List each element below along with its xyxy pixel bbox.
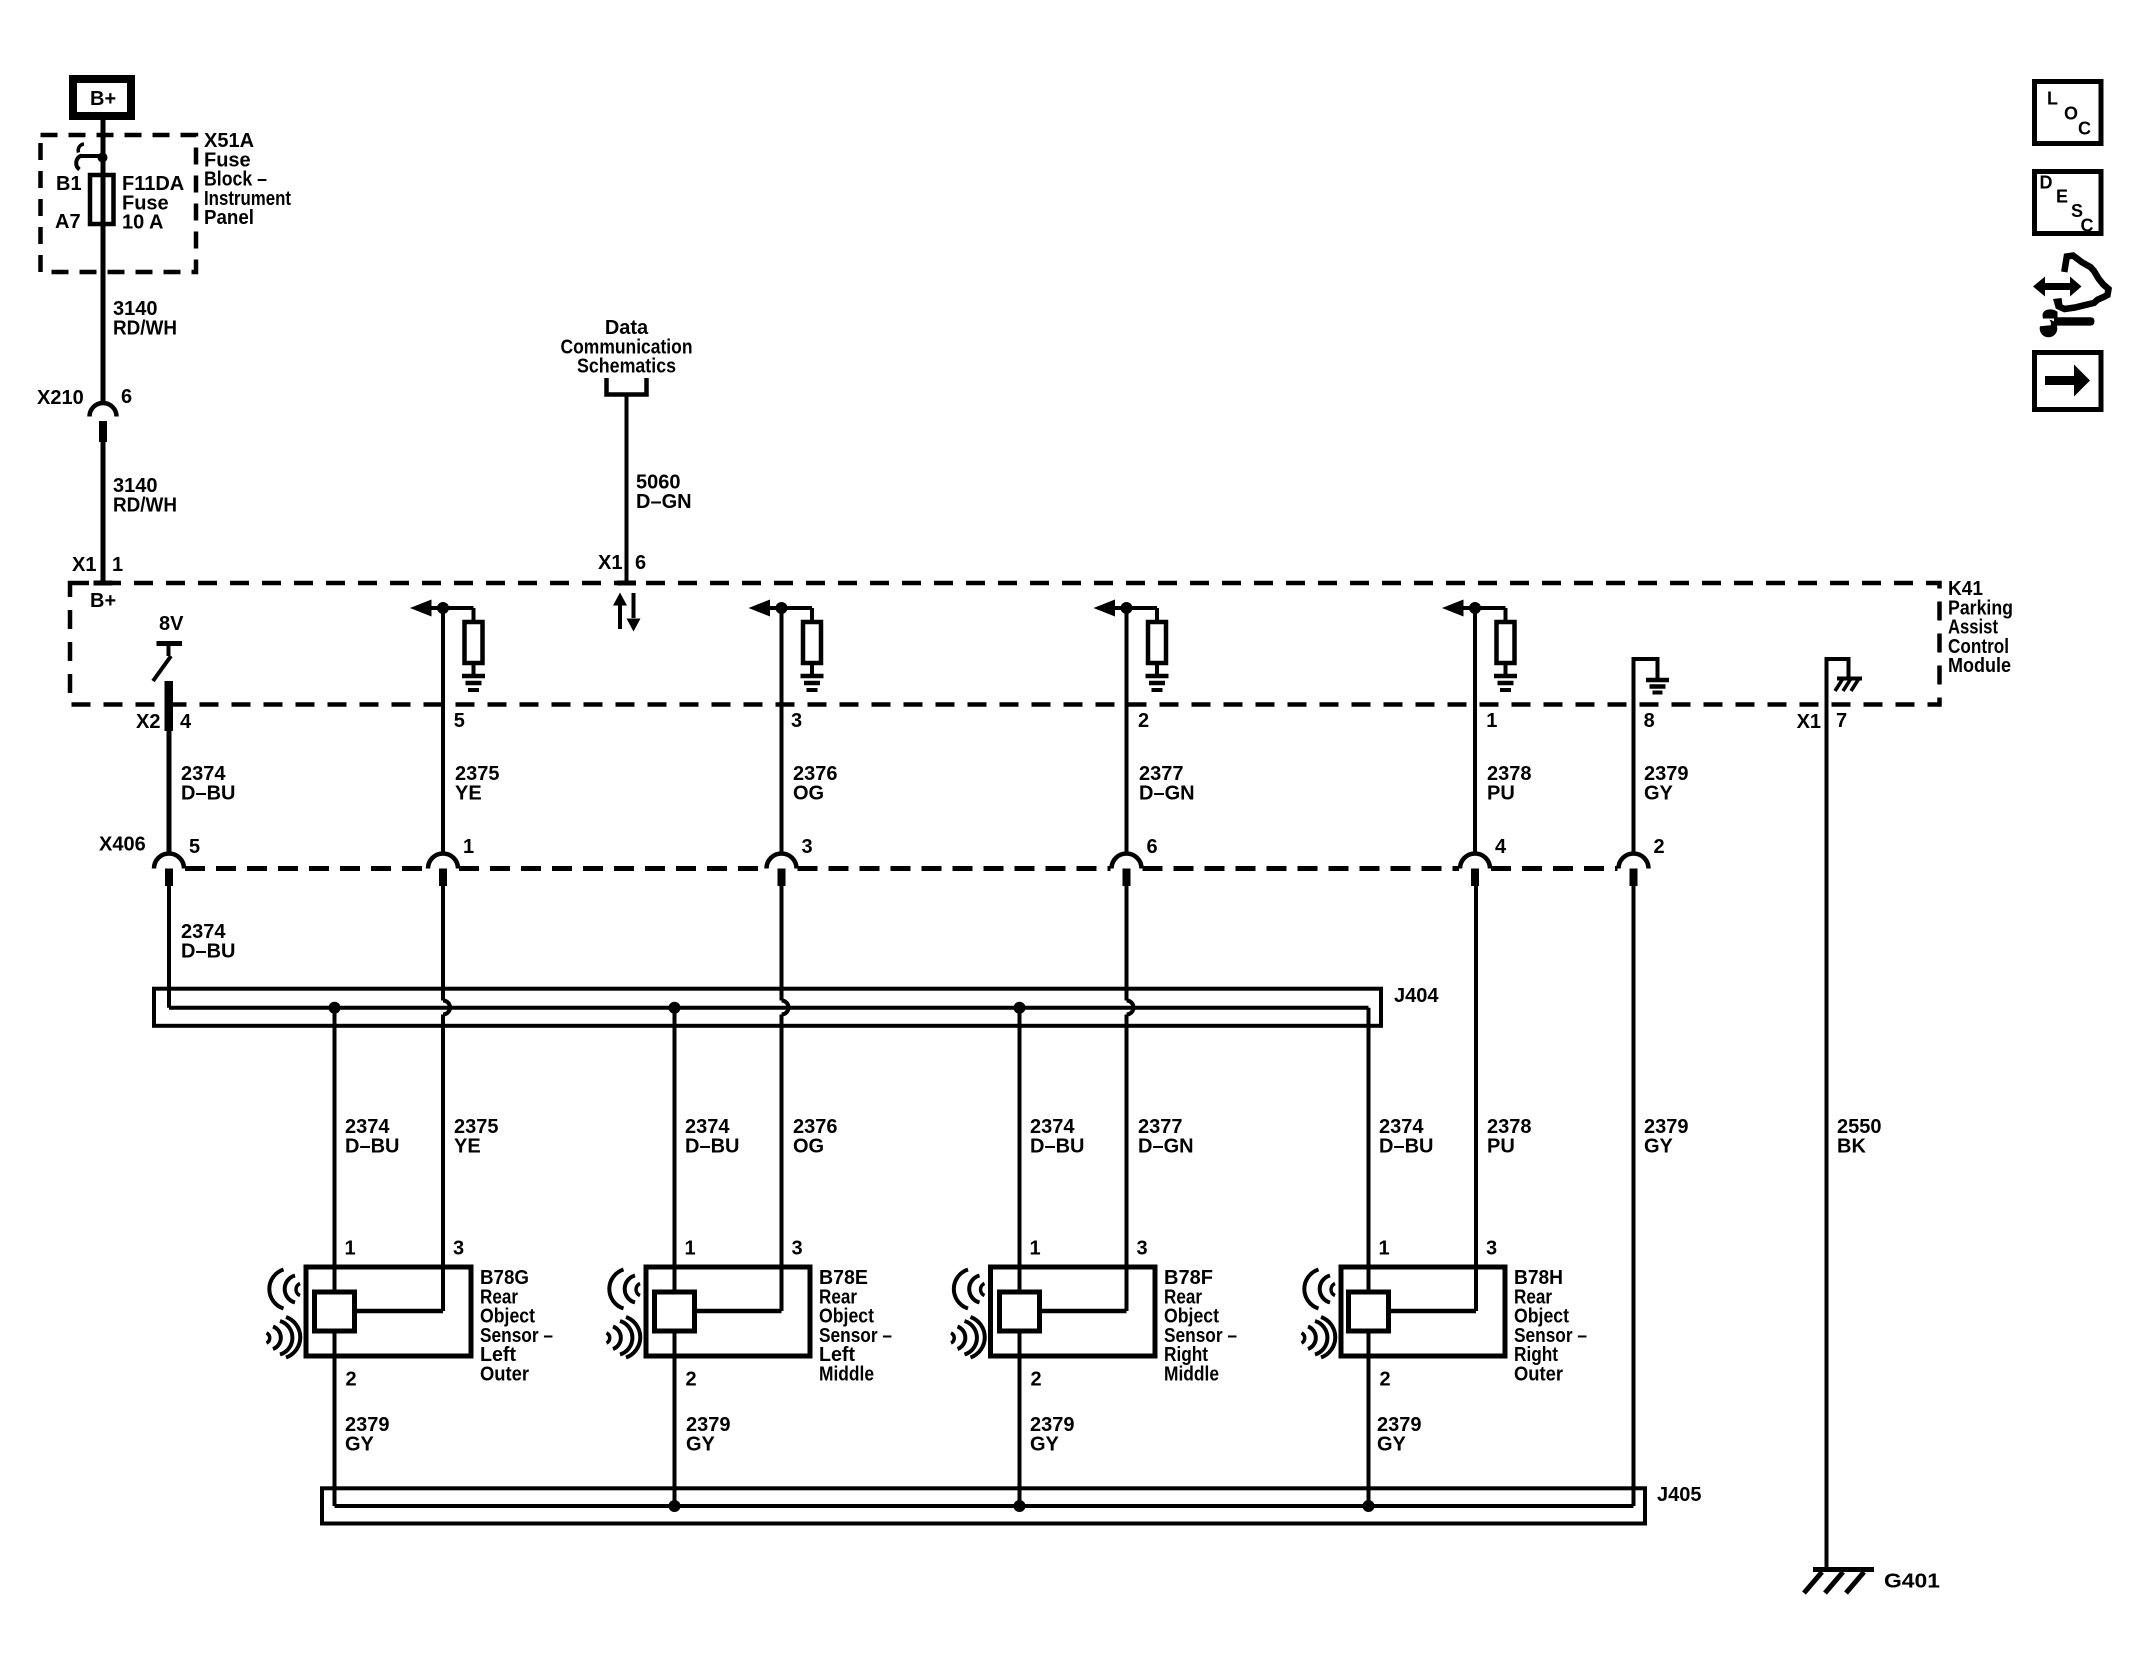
svg-text:6: 6	[635, 552, 646, 574]
svg-text:A7: A7	[55, 211, 81, 233]
resistor (pull) group 2	[803, 622, 821, 663]
sensor B78F transducer square	[1000, 1292, 1040, 1331]
svg-text:B1: B1	[56, 173, 82, 195]
svg-text:D: D	[2040, 173, 2053, 193]
branch wire J404 to sensor pin1	[333, 1008, 337, 1292]
wire sensor B78E pin2 to J405	[673, 1331, 677, 1506]
sensor B78E sound waves icon	[636, 1284, 640, 1296]
connector X406 pin 3 terminal and label	[767, 854, 797, 869]
svg-text:B+: B+	[90, 590, 116, 612]
wire 2376 OG pin3	[780, 608, 784, 854]
svg-text:GY: GY	[1377, 1433, 1407, 1455]
connector X406 pin 1 terminal and label	[428, 854, 458, 869]
module K41 dashed box	[70, 583, 1940, 705]
svg-text:1: 1	[1379, 1238, 1390, 1260]
svg-text:D–GN: D–GN	[1138, 1135, 1194, 1157]
svg-text:2: 2	[1654, 836, 1665, 858]
svg-text:1: 1	[1030, 1238, 1041, 1260]
junction in J404	[669, 1002, 681, 1014]
wire 2378 PU passing right of J404	[1474, 886, 1478, 1311]
svg-text:YE: YE	[455, 782, 482, 804]
connector X406 pin 4 terminal and label	[1460, 854, 1490, 869]
wire 5060 D-GN	[625, 396, 629, 581]
svg-text:Module: Module	[1948, 655, 2011, 677]
ground (internal) group 2	[801, 674, 824, 679]
svg-text:Panel: Panel	[204, 207, 254, 229]
wire sensor B78G pin2 to J405	[333, 1331, 337, 1506]
sensor B78E box	[646, 1267, 810, 1356]
sensor driver group 2: arrow, resistor, ground	[749, 600, 771, 617]
fuse block X51A dashed box	[41, 135, 197, 272]
svg-text:G401: G401	[1884, 1571, 1940, 1593]
svg-text:X1: X1	[1797, 711, 1821, 733]
icon wrench	[2043, 309, 2058, 318]
svg-text:5: 5	[454, 710, 465, 732]
svg-text:GY: GY	[345, 1433, 375, 1455]
svg-text:6: 6	[121, 386, 132, 408]
connector X406 pin 5 terminal and label	[154, 854, 184, 869]
svg-text:1: 1	[1486, 710, 1497, 732]
junction in J404	[329, 1002, 341, 1014]
svg-text:3: 3	[1486, 1238, 1497, 1260]
icon DESC box	[2035, 172, 2102, 234]
svg-text:8V: 8V	[159, 613, 184, 635]
svg-text:3: 3	[792, 1238, 803, 1260]
svg-text:PU: PU	[1487, 1135, 1515, 1157]
svg-text:2: 2	[346, 1369, 357, 1391]
svg-text:B+: B+	[90, 88, 116, 110]
wire 2375 YE pin5	[441, 608, 445, 854]
svg-text:D–BU: D–BU	[181, 782, 235, 804]
sensor B78H transducer square	[1349, 1292, 1389, 1331]
svg-text:GY: GY	[1644, 782, 1674, 804]
svg-text:4: 4	[1495, 836, 1507, 858]
svg-text:PU: PU	[1487, 782, 1515, 804]
svg-text:3: 3	[802, 836, 813, 858]
sensor B78G box	[306, 1267, 471, 1356]
wire 2377 D-GN pin2	[1125, 608, 1129, 854]
junction dot at fuse tap	[98, 153, 108, 163]
wire crossing J404 with hop	[1125, 886, 1129, 1001]
sensor B78E internal link	[695, 1309, 782, 1314]
serial data up/down arrows	[618, 604, 622, 629]
svg-text:X2: X2	[136, 711, 160, 733]
svg-text:Outer: Outer	[1514, 1364, 1563, 1386]
svg-text:E: E	[2056, 187, 2068, 207]
icon double-headed arrow	[2033, 277, 2082, 297]
branch wire J404 to sensor pin1	[673, 1008, 677, 1292]
branch wire J404 to sensor pin1	[1018, 1008, 1022, 1292]
sensor B78E transducer square	[655, 1292, 695, 1331]
svg-text:RD/WH: RD/WH	[113, 317, 177, 339]
ground (internal) group 3	[1146, 674, 1169, 679]
svg-text:OG: OG	[793, 1135, 824, 1157]
connector X406 pin 6 terminal and label	[1112, 854, 1142, 869]
splice pack J405	[322, 1488, 1645, 1523]
svg-text:1: 1	[112, 554, 123, 576]
svg-text:YE: YE	[454, 1135, 481, 1157]
svg-text:GY: GY	[686, 1433, 716, 1455]
pin X1-6	[617, 581, 636, 586]
svg-text:D–GN: D–GN	[636, 491, 692, 513]
sensor B78G internal link	[355, 1309, 444, 1314]
wire 2379 GY from pin8 into J405	[1632, 886, 1636, 1506]
sensor B78H box	[1341, 1267, 1505, 1356]
resistor (pull) group 3	[1148, 622, 1166, 663]
chassis ground internal pin X1-7	[1827, 659, 1849, 704]
svg-text:X406: X406	[99, 834, 146, 856]
wire B+ to fuse block	[101, 120, 106, 403]
svg-text:7: 7	[1836, 710, 1847, 732]
ground (internal) group 1	[462, 674, 485, 679]
svg-text:L: L	[2047, 89, 2058, 109]
wire 2550 BK to ground	[1825, 704, 1829, 1567]
svg-text:6: 6	[1147, 836, 1158, 858]
wire 2379 GY pin8	[1632, 704, 1636, 854]
wire sensor B78F pin2 to J405	[1018, 1331, 1022, 1506]
sensor B78F internal link	[1040, 1309, 1127, 1314]
sensor B78F box	[991, 1267, 1156, 1356]
svg-text:GY: GY	[1030, 1433, 1060, 1455]
wire crossing J404 with hop	[780, 886, 784, 1001]
svg-text:1: 1	[685, 1238, 696, 1260]
svg-text:C: C	[2081, 216, 2094, 236]
svg-text:3: 3	[453, 1238, 464, 1260]
ground internal pin 8	[1634, 659, 1658, 704]
svg-text:D–BU: D–BU	[181, 940, 235, 962]
svg-text:3: 3	[1137, 1238, 1148, 1260]
splice bus wire J404	[169, 1006, 1369, 1010]
svg-text:1: 1	[463, 836, 474, 858]
icon forward arrow box	[2035, 353, 2102, 410]
splice bus wire J405	[335, 1504, 1634, 1508]
svg-text:OG: OG	[793, 782, 824, 804]
junction in J405	[1363, 1500, 1375, 1512]
icon LOC box	[2035, 82, 2102, 144]
sensor B78H internal link	[1389, 1309, 1477, 1314]
svg-text:X1: X1	[72, 554, 96, 576]
svg-text:J405: J405	[1657, 1484, 1702, 1506]
fuse F11DA body	[90, 175, 114, 224]
wire sensor B78H pin2 to J405	[1367, 1331, 1371, 1506]
svg-text:C: C	[2078, 119, 2091, 139]
svg-text:5: 5	[189, 836, 200, 858]
svg-text:Middle: Middle	[1164, 1364, 1219, 1386]
wire X210 to K41	[101, 442, 106, 581]
svg-text:X1: X1	[598, 552, 622, 574]
sensor driver group 3: arrow, resistor, ground	[1094, 600, 1116, 617]
wire J404 right end down to sensor B78H	[1367, 1008, 1371, 1292]
svg-text:D–BU: D–BU	[685, 1135, 739, 1157]
svg-text:J404: J404	[1394, 985, 1439, 1007]
svg-text:D–GN: D–GN	[1139, 782, 1195, 804]
sensor driver group 1: arrow, resistor, ground	[410, 600, 432, 617]
svg-text:X210: X210	[37, 387, 84, 409]
junction in J405	[669, 1500, 681, 1512]
svg-text:2: 2	[686, 1369, 697, 1391]
svg-text:2: 2	[1138, 710, 1149, 732]
pin X1-1	[94, 581, 113, 586]
sensor B78G sound waves icon	[296, 1284, 300, 1296]
svg-text:D–BU: D–BU	[345, 1135, 399, 1157]
svg-text:GY: GY	[1644, 1135, 1674, 1157]
junction in J404	[1014, 1002, 1026, 1014]
svg-text:2: 2	[1380, 1369, 1391, 1391]
splice pack J404	[154, 989, 1381, 1026]
svg-text:3: 3	[791, 710, 802, 732]
svg-text:Schematics: Schematics	[577, 356, 676, 378]
fuse F11DA element tap and hook	[81, 154, 103, 158]
svg-text:BK: BK	[1837, 1135, 1866, 1157]
wire 2378 PU pin1	[1473, 608, 1477, 854]
wire crossing J404 with hop	[441, 886, 445, 1001]
ground (internal) group 4	[1494, 674, 1517, 679]
sensor driver group 4: arrow, resistor, ground	[1442, 600, 1464, 617]
connector X406 pin 2 terminal and label	[1619, 854, 1649, 869]
svg-text:Outer: Outer	[480, 1364, 529, 1386]
resistor (pull) group 1	[465, 622, 483, 663]
sensor B78G transducer square	[315, 1292, 355, 1331]
svg-text:8: 8	[1644, 710, 1655, 732]
junction in J405	[1014, 1500, 1026, 1512]
svg-text:RD/WH: RD/WH	[113, 494, 177, 516]
sensor B78H sound waves icon	[1331, 1284, 1335, 1296]
svg-text:Middle: Middle	[819, 1364, 874, 1386]
svg-text:10 A: 10 A	[122, 212, 164, 234]
svg-text:2: 2	[1031, 1369, 1042, 1391]
wire 2374 D-BU pin4	[167, 731, 172, 854]
ground G401 chassis symbol	[1813, 1567, 1874, 1572]
resistor (pull) group 4	[1497, 622, 1515, 663]
svg-text:D–BU: D–BU	[1379, 1135, 1433, 1157]
svg-text:1: 1	[345, 1238, 356, 1260]
svg-text:D–BU: D–BU	[1030, 1135, 1084, 1157]
icon drive cycle arrow outline	[2057, 256, 2108, 310]
sensor B78F sound waves icon	[981, 1284, 985, 1296]
node B+ battery terminal	[73, 79, 131, 116]
wire into J404 from X406 pin5	[167, 886, 171, 1008]
svg-text:4: 4	[180, 711, 192, 733]
svg-text:O: O	[2064, 104, 2078, 124]
connector X210 inline	[90, 403, 117, 417]
